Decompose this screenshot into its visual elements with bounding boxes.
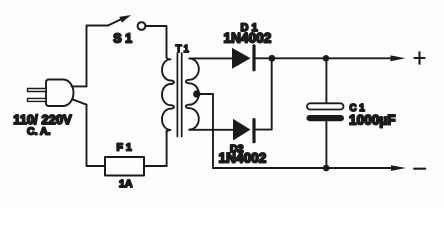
wire bottom rail xyxy=(213,167,394,169)
diode D2 cathode bar xyxy=(252,120,255,142)
wire D1 to node xyxy=(254,57,272,59)
svg-text:F 1: F 1 xyxy=(117,142,132,154)
wire top horizontal to switch xyxy=(87,25,109,27)
capacitor C1 bottom plate xyxy=(307,115,345,121)
switch S1 terminal circle xyxy=(138,22,146,30)
wire transformer primary bottom to fuse xyxy=(166,131,168,166)
transformer core line right xyxy=(181,53,183,137)
junction dot node A xyxy=(269,55,276,62)
wire fuse right xyxy=(144,165,167,167)
capacitor C1 top plate xyxy=(307,103,344,109)
wire D2 to node A xyxy=(254,58,272,129)
svg-text:1N4002: 1N4002 xyxy=(224,31,272,46)
diode D1 cathode bar xyxy=(252,46,255,70)
wire switch to transformer xyxy=(146,26,167,57)
capacitor C1 bottom lead xyxy=(325,121,327,168)
wire left vertical lower xyxy=(86,105,88,166)
wire top rail xyxy=(272,57,394,59)
plus sign xyxy=(415,52,425,64)
diode D2 triangle xyxy=(233,119,251,141)
switch S1 arm xyxy=(108,18,124,26)
capacitor C1 top lead xyxy=(325,58,327,103)
arrowhead plus output xyxy=(391,55,406,61)
svg-text:1000µF: 1000µF xyxy=(349,112,396,127)
svg-text:1A: 1A xyxy=(119,178,133,190)
center tap node dot xyxy=(193,90,200,97)
transformer core line left xyxy=(176,53,178,137)
svg-text:C. A.: C. A. xyxy=(27,126,51,138)
wire secondary top to D1 xyxy=(189,57,232,59)
wire left vertical upper xyxy=(86,26,88,87)
plug prong top xyxy=(28,89,47,92)
junction dot node B xyxy=(323,55,330,62)
fuse F1 body xyxy=(105,157,144,176)
wire plug bottom diagonal xyxy=(72,99,87,104)
svg-text:S 1: S 1 xyxy=(113,32,132,46)
minus sign xyxy=(414,168,425,170)
junction dot node C xyxy=(323,165,330,172)
arrowhead minus output xyxy=(391,165,406,171)
wire center tap to bottom rail xyxy=(198,94,214,168)
diode D1 triangle xyxy=(232,48,251,69)
transformer T1 secondary winding xyxy=(186,58,199,129)
plug prong bottom xyxy=(28,98,47,101)
wire fuse left xyxy=(87,165,106,167)
svg-text:1N4002: 1N4002 xyxy=(219,151,267,166)
wire secondary bottom to D2 xyxy=(189,129,233,131)
transformer T1 primary winding xyxy=(162,57,174,133)
plug P1 body xyxy=(46,80,74,107)
wire plug top to vertical xyxy=(72,85,87,87)
switch S1 arrowhead xyxy=(119,15,131,23)
